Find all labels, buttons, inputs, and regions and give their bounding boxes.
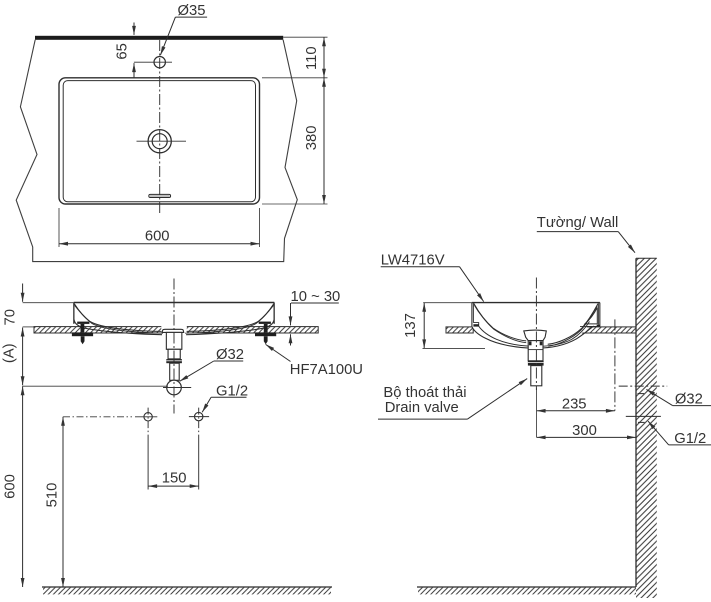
- vessel rim line: [74, 302, 275, 304]
- counter slab section: [34, 326, 318, 334]
- drain body: [166, 332, 182, 349]
- right supply hole: [195, 412, 203, 420]
- svg-text:235: 235: [562, 397, 587, 413]
- vessel right wall (double): [599, 303, 601, 327]
- drain locknut: [166, 359, 182, 363]
- counter front edge (thick): [35, 36, 283, 40]
- svg-text:LW4716V: LW4716V: [381, 253, 445, 269]
- dim 235 line: [537, 410, 615, 412]
- svg-text:10 ~ 30: 10 ~ 30: [291, 289, 341, 305]
- svg-text:Bộ thoát thải: Bộ thoát thải: [383, 385, 466, 401]
- drain outlet circle D32: [167, 380, 182, 395]
- svg-text:300: 300: [572, 423, 597, 439]
- near wall dip curves left: [474, 303, 526, 341]
- vessel left foot step: [473, 323, 478, 327]
- front floor hatch: [43, 588, 331, 595]
- left supply hole: [144, 413, 152, 421]
- dim 70 top arrow: [22, 284, 24, 302]
- dim 600 line: [22, 386, 24, 587]
- drain inner circle: [152, 134, 167, 149]
- faucet hole: [154, 57, 165, 68]
- vessel left inner curves: [74, 304, 161, 332]
- dim 65 arrows: [133, 23, 135, 35]
- dim 110 extension lines: [262, 37, 328, 78]
- side drain tailpipe: [531, 366, 542, 386]
- vessel silhouette fill: [472, 303, 600, 349]
- svg-text:(A): (A): [1, 343, 17, 363]
- vessel left bottom curve: [74, 320, 162, 335]
- svg-text:65: 65: [115, 43, 131, 59]
- dim 600 extension lines: [59, 208, 260, 247]
- dim 380 extension: [262, 203, 328, 205]
- right clamp HF7A100U: [255, 322, 276, 345]
- svg-text:70: 70: [3, 309, 19, 325]
- drain outer circle: [148, 130, 171, 153]
- vessel rim line: [472, 302, 600, 304]
- overflow slot: [149, 194, 171, 197]
- svg-text:510: 510: [45, 483, 61, 508]
- rim extension line: [23, 302, 74, 304]
- dim 110 line: [323, 37, 325, 78]
- drain circle crosshair: [163, 387, 191, 389]
- vessel right inner curves: [187, 304, 274, 332]
- dim 137 line: [423, 303, 425, 349]
- right foot dark corner: [597, 325, 600, 327]
- extension line at pipe end: [23, 385, 168, 387]
- vertical centerline: [159, 40, 161, 213]
- side floor hatch: [418, 588, 636, 595]
- side drain neck: [528, 341, 543, 361]
- drain flange cap: [162, 329, 184, 332]
- dim 380 line: [323, 78, 325, 204]
- vessel outer bottom curve: [472, 326, 594, 348]
- left foot dark corner: [473, 324, 479, 326]
- right inner fin triangle: [585, 308, 597, 324]
- drain body lower step: [168, 349, 180, 359]
- slab left stub: [446, 327, 473, 333]
- svg-text:380: 380: [304, 126, 320, 151]
- side centerline: [535, 278, 537, 391]
- slab extension: [23, 326, 34, 328]
- svg-text:Ø32: Ø32: [675, 391, 703, 407]
- drain centerline extension: [536, 388, 538, 437]
- svg-text:Drain valve: Drain valve: [385, 400, 459, 416]
- vessel left end wall: [73, 303, 75, 324]
- drain tailpipe: [170, 363, 180, 380]
- wall supply G1/2: [626, 415, 661, 417]
- side floor line: [417, 586, 636, 588]
- vessel right bottom curve: [186, 320, 274, 335]
- dim 510 line: [62, 417, 64, 587]
- dim A line: [22, 328, 24, 386]
- vessel seat line under right fin: [580, 325, 600, 327]
- counter outline with break lines: [16, 40, 297, 262]
- dim 150 line: [148, 485, 199, 487]
- side drain cap: [524, 330, 547, 341]
- dim 510 extension: [63, 416, 132, 418]
- svg-text:150: 150: [162, 470, 187, 486]
- drain crosshair: [137, 140, 187, 142]
- dim 300 line: [537, 436, 636, 438]
- dim 600 line: [59, 243, 260, 245]
- svg-text:137: 137: [403, 313, 419, 338]
- dim 137 extensions: [423, 303, 486, 349]
- svg-text:110: 110: [304, 46, 320, 70]
- faucet hole crosshair: [134, 61, 172, 63]
- svg-text:Ø35: Ø35: [178, 3, 206, 19]
- side drain locknut: [528, 361, 544, 366]
- svg-text:Tường/ Wall: Tường/ Wall: [537, 215, 619, 231]
- side drain tabs: [529, 341, 532, 345]
- svg-text:HF7A100U: HF7A100U: [290, 362, 363, 378]
- wall face line: [635, 258, 637, 587]
- svg-text:600: 600: [3, 474, 19, 499]
- basin inner rim: [63, 81, 255, 202]
- basin outer rim: [59, 78, 260, 204]
- near wall dip curves right: [548, 304, 598, 345]
- left clamp HF7A100U: [72, 322, 93, 345]
- front floor line: [42, 586, 332, 588]
- vessel right end wall: [273, 303, 275, 324]
- slab right part: [571, 327, 636, 333]
- wall top edge: [636, 257, 657, 259]
- front centerline: [173, 279, 175, 414]
- svg-text:600: 600: [145, 228, 170, 244]
- wall drain outlet D32: [619, 385, 668, 387]
- wall hatch band: [636, 258, 657, 598]
- vessel inner bottom curve: [479, 322, 590, 347]
- dim 235 extension (hole rear edge): [614, 319, 616, 410]
- vessel left wall (double): [471, 303, 473, 327]
